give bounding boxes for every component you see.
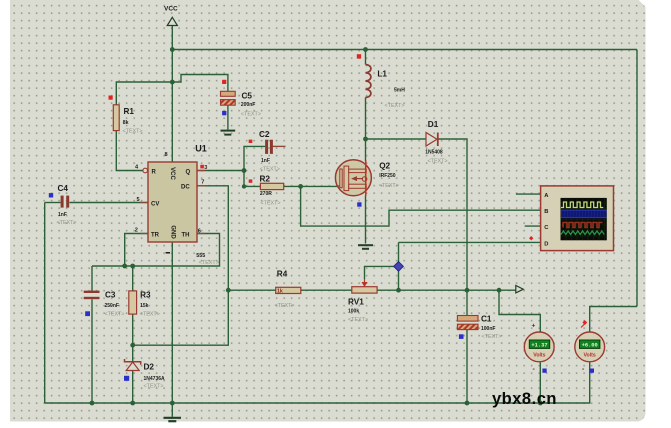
- svg-text:R: R: [152, 169, 157, 175]
- scope channel C trace: [563, 223, 603, 228]
- wire left rail: [44, 203, 46, 404]
- potentiometer RV1: [348, 279, 377, 323]
- svg-text:R2: R2: [260, 175, 271, 184]
- svg-text:CV: CV: [151, 201, 159, 207]
- svg-text:<TEXT>: <TEXT>: [275, 303, 295, 309]
- wire C1 top stem: [466, 290, 468, 315]
- svg-text:TH: TH: [182, 232, 190, 238]
- node C3 ground: [90, 401, 95, 406]
- wire right rail: [636, 50, 638, 307]
- capacitor C1: [457, 315, 501, 341]
- wire scope C stub: [525, 225, 541, 227]
- capacitor C3: [84, 291, 125, 318]
- svg-text:<TEXT>: <TEXT>: [261, 201, 281, 207]
- wire L1 junction to D1: [366, 138, 426, 140]
- wire C1 bottom stem: [466, 330, 468, 403]
- node C1 top: [465, 288, 470, 293]
- inductor L1: [357, 54, 405, 109]
- wire 555 TH loop: [92, 234, 220, 267]
- svg-text:Q: Q: [186, 169, 191, 175]
- wire ground tap bottom: [171, 403, 173, 417]
- wire C3 top stem: [91, 266, 93, 292]
- resistor R1: [109, 96, 143, 135]
- svg-text:C4: C4: [58, 184, 69, 193]
- node L1 top: [363, 47, 368, 52]
- wire CV link with C4: [45, 202, 61, 204]
- capacitor C2: [249, 130, 280, 173]
- svg-text:<TEXT>: <TEXT>: [123, 129, 143, 135]
- svg-text:<TEXT>: <TEXT>: [428, 159, 448, 165]
- svg-text:IRF250: IRF250: [379, 173, 396, 179]
- svg-text:D1: D1: [428, 120, 439, 129]
- capacitor C4: [49, 184, 77, 226]
- resistor R2: [249, 175, 284, 207]
- svg-text:3: 3: [204, 165, 207, 171]
- power VCC: [164, 6, 178, 26]
- ground under C5: [221, 131, 236, 135]
- svg-text:15k: 15k: [140, 303, 149, 309]
- svg-text:8k: 8k: [123, 120, 129, 126]
- svg-text:8: 8: [165, 152, 168, 158]
- wire D1 cathode to C1 column: [438, 139, 467, 290]
- wire C3 bottom stem: [91, 299, 93, 403]
- node L1 bottom: [363, 137, 368, 142]
- svg-text:R3: R3: [140, 291, 151, 300]
- wire scope D column: [398, 242, 400, 290]
- wire scope D horizontal: [399, 241, 541, 243]
- svg-text:+6.00: +6.00: [582, 343, 598, 349]
- svg-text:<TEXT>: <TEXT>: [199, 260, 219, 266]
- svg-text:+: +: [532, 323, 536, 330]
- svg-text:TR: TR: [151, 232, 160, 238]
- svg-text:D: D: [544, 241, 548, 247]
- node main ground: [170, 401, 175, 406]
- svg-text:555: 555: [196, 253, 205, 259]
- terminal output arrow: [516, 286, 524, 293]
- svg-text:<TEXT>: <TEXT>: [140, 312, 160, 318]
- wire C5 feed jog: [172, 75, 228, 92]
- wire R3 top stem: [132, 266, 134, 291]
- svg-text:<TEXT>: <TEXT>: [348, 317, 368, 323]
- svg-text:100nF: 100nF: [481, 326, 495, 332]
- wire 555 Q output: [197, 170, 244, 172]
- wire R2 to gate: [284, 185, 344, 187]
- wire meter1 feed: [499, 290, 540, 332]
- svg-text:L1: L1: [377, 70, 387, 79]
- svg-text:C2: C2: [259, 130, 270, 139]
- wire 555 TR link: [125, 234, 148, 267]
- node wiper column: [396, 288, 401, 293]
- svg-text:R1: R1: [124, 107, 135, 116]
- wire scope A stub: [516, 193, 541, 195]
- oscilloscope: [529, 186, 614, 251]
- node gate: [298, 184, 303, 189]
- wire VCC stem: [171, 26, 173, 163]
- svg-text:R4: R4: [277, 270, 288, 279]
- svg-text:250nF: 250nF: [105, 303, 119, 309]
- svg-text:Volts: Volts: [533, 352, 545, 358]
- svg-text:<TEXT>: <TEXT>: [241, 112, 261, 118]
- wire D2 top stem: [132, 345, 134, 361]
- wire D2 bottom stem: [132, 371, 134, 403]
- svg-text:5: 5: [137, 197, 140, 203]
- node meter1 feed: [497, 288, 502, 293]
- svg-text:D2: D2: [144, 363, 155, 372]
- svg-text:<TEXT>: <TEXT>: [482, 334, 502, 340]
- voltmeter PV2: [575, 320, 605, 373]
- svg-text:DC: DC: [181, 185, 190, 191]
- pin stubs U1: [141, 171, 206, 234]
- node R3 bottom D2: [130, 343, 135, 348]
- wire 555 GND stem: [171, 242, 173, 403]
- svg-text:200nF: 200nF: [241, 102, 255, 108]
- svg-text:U1: U1: [195, 144, 207, 154]
- wire C2 right dangling: [273, 145, 286, 147]
- voltmeter PV1: [524, 323, 554, 374]
- diode D2 zener: [124, 359, 165, 390]
- svg-text:2: 2: [135, 228, 138, 234]
- svg-text:VCC: VCC: [164, 6, 178, 13]
- wire R1 top link: [116, 82, 172, 105]
- node R1/C5: [170, 80, 175, 85]
- svg-text:1N5408: 1N5408: [425, 150, 443, 156]
- svg-text:1k: 1k: [277, 289, 283, 295]
- svg-text:Volts: Volts: [583, 352, 595, 358]
- svg-text:1nF: 1nF: [261, 158, 270, 164]
- wire 555 DC column: [133, 186, 229, 345]
- transistor Q2 MOSFET: [335, 160, 398, 207]
- svg-text:<TEXT>: <TEXT>: [144, 384, 164, 390]
- svg-text:C3: C3: [105, 291, 116, 300]
- wire meter2 feed: [590, 307, 637, 332]
- node DC/R4: [226, 288, 231, 293]
- diode D1: [425, 120, 447, 165]
- svg-text:VCC: VCC: [169, 167, 175, 180]
- wire R2 branch: [244, 171, 260, 187]
- node D2 ground: [130, 401, 135, 406]
- ground under Q2: [358, 245, 373, 249]
- wire main mid R4 RV1 row: [228, 289, 275, 291]
- wire C5 ground stem: [227, 105, 229, 129]
- resistor R4: [275, 270, 301, 309]
- wire L1 branch: [365, 50, 367, 65]
- wire top rail: [172, 49, 637, 51]
- svg-text:C1: C1: [481, 315, 492, 324]
- svg-text:Q2: Q2: [379, 162, 390, 171]
- node VCC rail: [170, 47, 175, 52]
- wire R1 bottom to reset: [116, 131, 143, 171]
- node R2 left: [242, 184, 246, 188]
- svg-text:6: 6: [198, 229, 201, 235]
- node R3 top: [130, 264, 135, 269]
- scope channel D trace: [561, 231, 604, 235]
- wire Q2 drain stem: [365, 139, 367, 162]
- svg-text:<TEXT>: <TEXT>: [385, 103, 405, 109]
- wire meter1 bottom: [539, 362, 541, 403]
- ground bottom center: [164, 418, 182, 421]
- op: 555 timer U1: [135, 144, 219, 266]
- svg-text:5mH: 5mH: [394, 88, 405, 94]
- wire C2 branch: [244, 146, 265, 170]
- svg-text:1nF: 1nF: [58, 212, 67, 218]
- wire RV1 wiper link: [365, 266, 399, 279]
- svg-text:<TEXT>: <TEXT>: [57, 220, 77, 226]
- wire R3 bottom stem: [132, 314, 134, 345]
- svg-text:B: B: [544, 209, 548, 215]
- node meter1 ground: [538, 401, 543, 406]
- svg-text:<TEXT>: <TEXT>: [379, 183, 399, 189]
- scope channel B trace: [561, 210, 607, 219]
- svg-text:270R: 270R: [260, 191, 272, 197]
- wire bottom rail: [45, 362, 590, 403]
- node Q output: [242, 168, 247, 173]
- node TR join: [122, 264, 127, 269]
- svg-text:100k: 100k: [348, 308, 359, 314]
- svg-text:GND: GND: [170, 225, 176, 239]
- svg-text:ybx8.cn: ybx8.cn: [492, 390, 557, 408]
- wire scope B tap: [301, 186, 541, 226]
- capacitor C5: [221, 80, 261, 118]
- resistor R3: [129, 291, 160, 318]
- svg-text:1N4736A: 1N4736A: [144, 376, 166, 382]
- svg-text:<TEXT>: <TEXT>: [260, 167, 280, 173]
- wire Q2 source to ground: [365, 196, 367, 244]
- svg-text:RV1: RV1: [348, 298, 364, 307]
- svg-text:<TEXT>: <TEXT>: [105, 312, 125, 318]
- svg-text:7: 7: [201, 180, 204, 186]
- scope channel A trace: [561, 202, 603, 208]
- svg-text:C5: C5: [242, 92, 253, 101]
- node C1 ground: [465, 401, 470, 406]
- svg-text:+1.37: +1.37: [531, 343, 547, 349]
- node wiper diamond: [394, 262, 404, 272]
